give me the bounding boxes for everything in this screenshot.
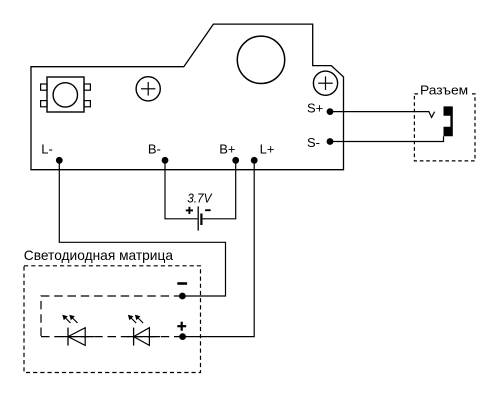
- svg-text:B-: B-: [148, 142, 161, 157]
- wire battery to B+: [202, 160, 236, 219]
- matrix plus marker: [177, 322, 186, 331]
- svg-text:S+: S+: [307, 101, 323, 116]
- LED matrix dashed box: [24, 266, 201, 373]
- mounting hole left (crosshair): [136, 77, 160, 101]
- wire S+ to connector (with plug check): [330, 112, 435, 118]
- terminal dot L-: [56, 157, 63, 164]
- solid wire under LED VD1: [62, 336, 94, 338]
- wire S- to connector: [330, 136, 444, 141]
- dashed wire minus row inside matrix: [41, 296, 182, 337]
- battery plus marker: [186, 207, 193, 214]
- svg-text:L-: L-: [41, 142, 53, 157]
- svg-text:3.7V: 3.7V: [187, 190, 213, 205]
- battery minus marker: [205, 209, 211, 211]
- terminal dot B-: [162, 157, 169, 164]
- push button SW1 body: [47, 77, 84, 112]
- battery GB1 positive plate (long): [197, 206, 199, 230]
- label background for Разъем: [419, 84, 470, 96]
- LED VD2 emission arrows: [128, 315, 143, 323]
- push button SW1 pin tab top-right: [84, 84, 90, 90]
- battery GB1 negative plate (short): [200, 214, 202, 226]
- LED VD2 cathode bar: [133, 328, 135, 346]
- wire B- down to battery: [165, 160, 198, 219]
- svg-text:Светодиодная матрица: Светодиодная матрица: [24, 247, 173, 263]
- svg-text:B+: B+: [219, 142, 235, 157]
- LED VD1 cathode bar: [67, 328, 69, 346]
- svg-text:Разъем: Разъем: [420, 82, 468, 97]
- large hole: [237, 36, 284, 83]
- LED VD1 emission arrows: [62, 315, 77, 323]
- connector pin block (two squares and bar): [444, 106, 453, 136]
- push button SW1 pin tab bottom-left: [41, 101, 47, 107]
- dashed wire plus row (LED chain): [41, 336, 183, 338]
- connector dashed box: [414, 94, 475, 161]
- matrix plus dot: [179, 333, 186, 340]
- push button SW1 pin tab bottom-right: [84, 101, 90, 107]
- driver board outline: [31, 24, 344, 170]
- LED VD2 triangle: [134, 328, 150, 346]
- solid wire under LED VD2: [127, 336, 160, 338]
- LED VD1 triangle: [68, 328, 85, 346]
- push button SW1 cap circle: [53, 83, 77, 107]
- matrix minus dot: [179, 293, 186, 300]
- terminal dot S+: [327, 108, 334, 115]
- wire L+ to matrix plus: [183, 160, 255, 336]
- matrix minus marker: [177, 282, 187, 285]
- terminal dot S-: [327, 138, 334, 145]
- mounting hole right (crosshair): [313, 71, 337, 95]
- push button SW1 pin tab top-left: [41, 84, 47, 90]
- terminal dot B+: [232, 157, 239, 164]
- terminal dot L+: [251, 157, 258, 164]
- svg-text:S-: S-: [307, 135, 320, 150]
- svg-text:L+: L+: [260, 142, 275, 157]
- wire L- to matrix minus: [59, 160, 225, 296]
